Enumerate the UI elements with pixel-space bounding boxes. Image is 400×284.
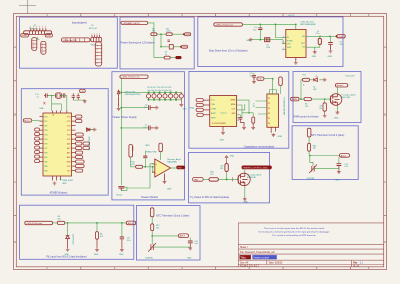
capacitor C2 xtal (63, 93, 65, 97)
ground C7 sideways (155, 126, 159, 130)
ground C4 sideways (155, 106, 159, 110)
svg-text:Id: 1/1: Id: 1/1 (353, 266, 360, 268)
ground mcu caps (73, 99, 86, 103)
ground C13 (252, 80, 256, 84)
svg-text:Size: A4: Size: A4 (240, 261, 249, 264)
net pin ADC3 (126, 221, 135, 225)
svg-text:MICA: MICA (231, 103, 236, 106)
svg-text:PC5: PC5 (67, 139, 70, 141)
thermistor TH3 (307, 156, 318, 181)
net label +5V mcu (80, 89, 86, 93)
svg-text:PWM_FUN1: PWM_FUN1 (62, 180, 73, 182)
wire B branch2 (161, 46, 180, 48)
svg-text:R11: R11 (220, 168, 223, 170)
net pin TM2 filled (175, 56, 181, 59)
IC U2 MP1584 (286, 30, 306, 58)
net pins left column (35, 128, 40, 163)
svg-text:ADC2: ADC2 (341, 154, 347, 157)
svg-text:GND: GND (183, 109, 188, 111)
svg-text:4: 4 (42, 52, 43, 54)
svg-text:T4_Output to 50V-12 data line(: T4_Output to 50V-12 data line(dave) (190, 196, 230, 199)
sheet box I: data line input (20, 205, 134, 259)
svg-text:Sheet: /: Sheet: / (240, 246, 248, 249)
svg-text:PD4: PD4 (44, 134, 47, 136)
wire B branch1 (157, 33, 183, 35)
svg-text:PD6: PD6 (44, 143, 47, 145)
MOSFET Q2 (238, 173, 250, 187)
connector P3 vertical long (95, 42, 101, 66)
ground rail sideways (249, 38, 253, 42)
svg-text:PB2: PB2 (44, 161, 47, 163)
title block title highlight (252, 255, 276, 259)
svg-text:170: 170 (210, 174, 213, 176)
crystal Y1 (56, 93, 62, 98)
wire L1 feedback (306, 45, 320, 51)
svg-text:C6 C8 C17 C16 C19 C9 C26: C6 C8 C17 C16 C19 C9 C26 (147, 87, 171, 89)
net label +48V(BATF)+A(TC) (121, 21, 148, 25)
wire D main vertical (120, 78, 122, 185)
svg-text:220k: 220k (166, 31, 170, 33)
svg-text:KiCad E.D.A. 8.0.7: KiCad E.D.A. 8.0.7 (240, 265, 260, 268)
ground opamp (163, 174, 172, 191)
svg-text:1: 1 (92, 33, 93, 35)
resistor R6 (304, 98, 311, 108)
svg-text:Power Sensing for 12A (dave): Power Sensing for 12A (dave) (121, 41, 155, 45)
heater element (118, 186, 124, 190)
svg-text:PD7: PD7 (44, 148, 47, 150)
svg-text:GND: GND (39, 108, 44, 110)
svg-text:1.5k: 1.5k (258, 79, 262, 81)
svg-text:PETE: PETE (211, 118, 216, 120)
svg-text:Capacitance sensors(dave): Capacitance sensors(dave) (244, 145, 275, 148)
wire G led branch (301, 80, 323, 99)
junction I2 (96, 222, 98, 224)
label J3 SPLI_M (89, 25, 97, 30)
wire U5 top stubs (270, 90, 277, 95)
svg-text:D: D (14, 240, 16, 244)
ground U5 (272, 133, 276, 137)
svg-text:CVNR: CVNR (211, 109, 217, 111)
sheet box J: NTC Thermistor 1 (136, 206, 200, 260)
svg-text:10k: 10k (313, 148, 316, 150)
svg-text:.22u: .22u (339, 44, 343, 46)
net pin GM3 (183, 33, 191, 36)
resistor R11 (220, 159, 228, 179)
net label PWM_OUT vertical (279, 77, 283, 94)
svg-text:10k: 10k (319, 108, 322, 110)
capacitor C10 (120, 223, 131, 248)
svg-text:P6: P6 (268, 123, 270, 125)
svg-text:GND: GND (231, 113, 236, 115)
sheet box E: ATMEGA MCU (21, 89, 108, 195)
wire B branch3 (154, 57, 176, 59)
junction C2j (275, 24, 277, 26)
ground C10 (119, 248, 124, 256)
junction B1 (160, 33, 162, 35)
svg-text:File: Research_Project41cad_sc: File: Research_Project41cad_sch (240, 251, 276, 254)
frame column ticks bottom (81, 267, 351, 270)
wire Q2 drain (244, 169, 246, 172)
svg-text:1: 1 (33, 40, 34, 42)
title block kicad row (240, 265, 360, 268)
capacitor C15 (337, 157, 349, 170)
connector J3 pins (91, 35, 102, 42)
net pin +12V (335, 35, 345, 39)
svg-text:PC3: PC3 (67, 130, 70, 132)
IC U3 left pin wires (204, 100, 210, 115)
junction C rail (259, 39, 261, 41)
title block description text (259, 227, 330, 237)
net label +5V vertical K (307, 128, 311, 137)
svg-text:AD6: AD6 (67, 142, 70, 145)
wire C7 link (121, 127, 148, 129)
svg-text:GND: GND (190, 108, 195, 110)
IC U1 left pin wires (40, 117, 44, 162)
sheet box K: NTC Thermistor 3 (292, 126, 358, 180)
svg-text:GND: GND (230, 155, 235, 157)
frame column numbers bottom (46, 266, 370, 270)
svg-text:4: 4 (97, 56, 98, 58)
wire C output (306, 35, 335, 37)
net pins U3 left (196, 99, 203, 117)
J2 pin numbers (30, 27, 46, 29)
label Rheostat_Amp1 (167, 158, 181, 164)
svg-text:B5GU13A: B5GU13A (247, 176, 256, 179)
wire J2 stub (37, 37, 39, 39)
net pin PWM (291, 97, 299, 101)
sheet box H: T4 output MOSFET (189, 152, 270, 203)
sheet box D: Heater Power Supply / Heater Module (112, 72, 185, 200)
svg-text:3.3u: 3.3u (127, 240, 131, 242)
svg-text:HEAT+: HEAT+ (131, 146, 134, 152)
svg-text:P3: P3 (268, 108, 270, 110)
net pin ADC2 (340, 154, 350, 158)
label PWM_FUN1 GND (62, 180, 73, 185)
net label Heater- (335, 84, 347, 88)
svg-text:Heater Power Supply: Heater Power Supply (113, 115, 138, 119)
junction dots cap bank bottom (148, 99, 177, 101)
no-connect cross (43, 102, 45, 105)
ground D2 (65, 242, 70, 256)
transistor Q1 (330, 94, 342, 106)
svg-text:6: 6 (97, 63, 98, 65)
svg-text:0.5u: 0.5u (345, 166, 349, 168)
svg-text:GND: GND (246, 40, 251, 42)
svg-text:A: A (14, 45, 16, 49)
svg-text:5kout: 5kout (22, 34, 27, 37)
svg-text:1k: 1k (303, 85, 305, 87)
ground C12 (242, 126, 246, 129)
svg-text:+50V-12 Data line: +50V-12 Data line (26, 222, 43, 225)
capacitor C4 (144, 104, 154, 110)
wire xtal loop (49, 96, 67, 111)
svg-text:Th(NTM): Th(NTM) (145, 258, 153, 260)
svg-text:This circuit is to take inputs: This circuit is to take inputs from the … (264, 227, 325, 230)
svg-text:GND: GND (334, 117, 339, 119)
svg-text:+12V: +12V (338, 36, 343, 38)
svg-text:T1_output_Mos3: T1_output_Mos3 (247, 173, 261, 176)
junction C5 (329, 35, 331, 37)
resistor R13 (131, 161, 143, 168)
svg-text:1: 1 (30, 27, 31, 29)
wire U3 right weave (237, 100, 249, 118)
origin crosshair marker (19, 0, 36, 13)
svg-text:P6SU26(b313376): P6SU26(b313376) (125, 94, 141, 96)
svg-text:NTC Thermistor Circuit 3 (dave: NTC Thermistor Circuit 3 (dave) (311, 134, 344, 137)
frame row ticks right (384, 81, 387, 216)
svg-text:ATMEGA(dave): ATMEGA(dave) (50, 190, 68, 194)
junction G1 (300, 98, 302, 100)
svg-text:3: 3 (33, 45, 34, 47)
svg-text:10u: 10u (249, 76, 252, 78)
label CON_5A_TC3 MP1584EN (300, 20, 316, 26)
svg-text:R17: R17 (303, 74, 306, 76)
junction L1 (319, 35, 321, 37)
svg-text:PD5: PD5 (44, 139, 47, 141)
resistor R16 (308, 137, 317, 155)
junction I1 (67, 222, 69, 224)
svg-text:BZX79C5V1: BZX79C5V1 (72, 235, 74, 245)
svg-text:+48V-L2 Power Line: +48V-L2 Power Line (121, 77, 140, 79)
net pin GM2 (180, 45, 188, 48)
svg-text:+12k: +12k (46, 35, 50, 37)
svg-text:GND: GND (145, 145, 150, 147)
svg-text:Heater Module: Heater Module (141, 195, 158, 199)
ground Q2 (243, 197, 247, 201)
IC U5 bottom pins (271, 127, 275, 133)
resistor R10 (209, 172, 218, 181)
net pin PWM2 (193, 178, 204, 182)
junction F1 (272, 78, 274, 80)
wire C EN drop (275, 24, 285, 37)
net label +48V-L2 Power Line (D) (120, 75, 148, 79)
ground U2 (294, 58, 298, 65)
resistor R4 220k (166, 28, 172, 35)
svg-text:B: B (384, 113, 386, 117)
svg-text:4: 4 (99, 33, 100, 35)
svg-text:47k: 47k (100, 236, 103, 238)
junction B2 (160, 46, 162, 48)
IC U1 ATMEGA (43, 113, 72, 176)
svg-text:0.1u: 0.1u (144, 127, 148, 129)
junction J1 (151, 235, 153, 237)
svg-text:2: 2 (97, 48, 98, 50)
resistor R5 (319, 99, 326, 111)
ground C11 (187, 246, 192, 259)
svg-text:GND: GND (328, 56, 333, 58)
svg-text:PWM: PWM (292, 99, 297, 101)
svg-text:U1: U1 (52, 115, 54, 117)
svg-text:2: 2 (42, 46, 43, 48)
svg-text:P4: P4 (268, 113, 270, 115)
capacitor C14 (143, 151, 147, 167)
ground FB (313, 50, 317, 54)
wire TH3 bottom (314, 168, 339, 170)
wire R13 to opamp (143, 167, 155, 172)
svg-text:GND: GND (62, 183, 67, 185)
svg-text:PC0: PC0 (67, 116, 70, 118)
junction D3 (120, 127, 122, 129)
capacitor C11 (188, 238, 198, 247)
svg-text:Heat_LED: Heat_LED (346, 75, 355, 78)
svg-text:PD0: PD0 (44, 116, 47, 118)
net label +5V vertical opamp (159, 143, 163, 152)
resistor R2 (151, 28, 157, 35)
title block border (238, 223, 383, 267)
svg-text:3: 3 (36, 27, 37, 29)
svg-text:PD1: PD1 (44, 121, 47, 123)
TVS diode D3 (117, 90, 120, 97)
wire B vertical branch (160, 34, 162, 47)
junction F2 (248, 112, 250, 114)
svg-text:FSW: FSW (287, 47, 291, 49)
svg-text:MAX(MAX): MAX(MAX) (167, 161, 177, 164)
junction mcu bottom (60, 179, 62, 181)
resistor R7 (96, 223, 104, 239)
net label HEAT vertical (129, 145, 134, 158)
connector J3 body (61, 38, 90, 42)
svg-text:Rev: Rev (353, 262, 358, 264)
wire G main (299, 98, 331, 100)
svg-text:FG/FB: FG/FB (287, 40, 293, 42)
svg-text:120: 120 (305, 106, 308, 108)
svg-text:GND: GND (312, 56, 317, 58)
svg-text:P6_input from 50V-12 data line: P6_input from 50V-12 data line(dave) (46, 256, 87, 259)
ground C5 (329, 50, 333, 54)
svg-text:5: 5 (42, 27, 43, 29)
frame row letters right (384, 45, 386, 244)
svg-text:GND: GND (94, 254, 99, 256)
svg-text:GND: GND (244, 202, 249, 204)
frame column numbers top (46, 13, 370, 17)
capacitor C5 (328, 36, 343, 49)
wire U5 left wires (256, 101, 267, 114)
net label +12k (45, 34, 52, 38)
svg-text:Date: 6/26/25: Date: 6/26/25 (269, 261, 283, 264)
svg-text:GND: GND (167, 189, 172, 191)
thermistor TH1 (145, 236, 156, 260)
wire reset (32, 119, 40, 121)
capacitor C12 (236, 117, 244, 126)
svg-text:P6(18X3L8 GM13B4: P6(18X3L8 GM13B4 (283, 98, 285, 115)
net label +48V-L2 Power Line (214, 23, 243, 27)
diode D1 (87, 128, 93, 131)
wire opamp output (171, 167, 177, 169)
wire C gnd rail (253, 40, 286, 44)
svg-text:+48V(BATF)+A(TC): +48V(BATF)+A(TC) (122, 22, 140, 25)
resistor R17 (303, 74, 310, 86)
svg-text:PD3: PD3 (44, 130, 47, 132)
resistor R5b (164, 56, 170, 59)
sheet box B: Power Sensing (120, 17, 194, 69)
net pin PWM1 (176, 166, 185, 170)
svg-text:PB0: PB0 (44, 152, 47, 154)
junction H1 (226, 178, 228, 180)
svg-text:ADC1: ADC1 (180, 235, 186, 238)
ground Q1 (336, 111, 340, 115)
svg-text:This control is achieved by an: This control is achieved by an NPN trans… (272, 234, 316, 237)
svg-text:GND: GND (278, 136, 283, 138)
sheet box F: Capacitance sensors (189, 72, 289, 149)
capacitor C3 (253, 24, 262, 39)
title block Title chip (240, 255, 251, 259)
svg-text:2: 2 (94, 33, 95, 35)
wire J adc (152, 235, 178, 237)
svg-text:ADC3: ADC3 (128, 222, 134, 225)
svg-text:Th(NTM): Th(NTM) (307, 178, 315, 180)
svg-text:ARF: ARF (67, 156, 70, 159)
wire TH1 bottom (153, 245, 190, 248)
junction K1 (309, 155, 311, 157)
svg-text:Heater-: Heater- (337, 84, 344, 87)
svg-text:CovrC1: CovrC1 (221, 113, 227, 115)
net label +5V vertical J (150, 208, 154, 217)
svg-text:MP1584EN(W/B: MP1584EN(W/B (300, 24, 316, 26)
junction I3 (121, 222, 123, 224)
label T1_output_Mos2 (341, 93, 355, 99)
svg-text:1: 1 (97, 45, 98, 47)
wire B main vertical (148, 23, 154, 58)
svg-text:GND: GND (220, 140, 225, 142)
wire Q1 emitter (336, 105, 338, 110)
svg-text:0.2R: 0.2R (131, 164, 136, 166)
junction D2 (120, 107, 122, 109)
diode D2 zener (66, 223, 70, 242)
svg-text:D: D (384, 240, 386, 244)
svg-text:Heat3: Heat3 (117, 193, 123, 196)
svg-text:MISO/MOSI/SCK: MISO/MOSI/SCK (87, 137, 89, 152)
svg-text:+48V-L2 Power Line: +48V-L2 Power Line (215, 24, 234, 26)
capacitor C1 xtal (35, 93, 48, 98)
svg-text:10k: 10k (156, 227, 159, 229)
IC U3 TLC555 (210, 96, 237, 131)
svg-text:2: 2 (33, 43, 34, 45)
junction C1 (259, 24, 261, 26)
decoupling caps VCC (72, 93, 80, 100)
junction dots cap bank top (148, 92, 177, 94)
wire H main (203, 178, 238, 180)
net pin Reset (23, 119, 31, 123)
connector P1 vertical (32, 38, 37, 51)
junction xtal2 (61, 95, 63, 97)
wire R13 input (131, 157, 136, 167)
capacitor C7 (144, 125, 155, 131)
svg-text:+5V-L2: +5V-L2 (288, 15, 296, 17)
svg-text:3: 3 (97, 33, 98, 35)
net label 5kout (21, 34, 29, 38)
svg-text:PC2: PC2 (67, 125, 70, 127)
op-amp U4 (152, 159, 171, 177)
svg-text:10u: 10u (253, 30, 256, 32)
svg-text:heater control: heater control (254, 256, 270, 259)
svg-text:SPLI_M: SPLI_M (89, 28, 97, 30)
wire Q2 source (244, 186, 246, 197)
svg-text:1n: 1n (165, 54, 167, 56)
svg-text:P5: P5 (268, 118, 270, 120)
net label HEATER+CONTROL filled (242, 166, 272, 170)
svg-text:PD2: PD2 (44, 125, 47, 127)
sheet box A: Inputs (20, 17, 118, 68)
capacitor bank bus wires (148, 92, 181, 100)
svg-text:PWM control for Heater: PWM control for Heater (294, 115, 319, 118)
svg-text:2: 2 (33, 27, 34, 29)
J3 pin numbers (92, 33, 101, 35)
svg-text:A: A (384, 45, 386, 49)
wire heater to opamp (127, 164, 155, 188)
wire C4 link (121, 107, 148, 109)
wire F top link (264, 79, 273, 94)
svg-text:1: 1 (42, 44, 43, 46)
